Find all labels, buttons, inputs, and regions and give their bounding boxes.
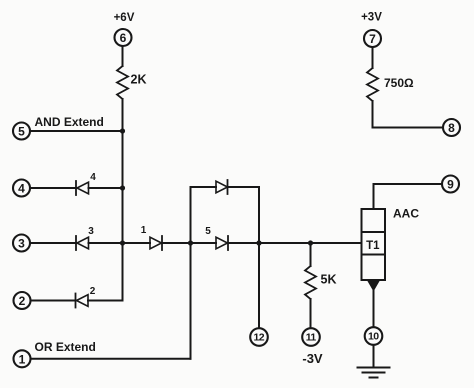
svg-text:3: 3 [88,226,94,237]
svg-text:750Ω: 750Ω [384,76,414,90]
svg-text:5: 5 [18,125,25,139]
svg-text:12: 12 [253,332,264,344]
svg-text:8: 8 [448,121,455,135]
svg-text:10: 10 [368,331,379,343]
svg-text:OR Extend: OR Extend [35,340,96,354]
svg-text:AND Extend: AND Extend [35,115,104,129]
svg-text:11: 11 [306,332,317,344]
svg-text:9: 9 [447,178,454,192]
svg-text:6: 6 [120,31,127,45]
svg-text:2: 2 [90,286,96,297]
svg-text:4: 4 [90,172,96,183]
svg-text:3: 3 [18,237,25,251]
svg-text:4: 4 [18,182,25,196]
svg-text:5: 5 [205,226,211,237]
svg-text:5K: 5K [321,273,337,287]
svg-text:T1: T1 [366,240,380,252]
svg-text:7: 7 [369,32,376,46]
svg-text:AAC: AAC [393,207,419,221]
svg-text:+3V: +3V [361,12,382,24]
svg-text:1: 1 [141,225,147,236]
svg-text:1: 1 [19,352,26,366]
svg-text:+6V: +6V [114,12,135,24]
svg-text:-3V: -3V [302,351,323,366]
svg-text:2: 2 [19,294,26,308]
svg-text:2K: 2K [131,72,147,86]
